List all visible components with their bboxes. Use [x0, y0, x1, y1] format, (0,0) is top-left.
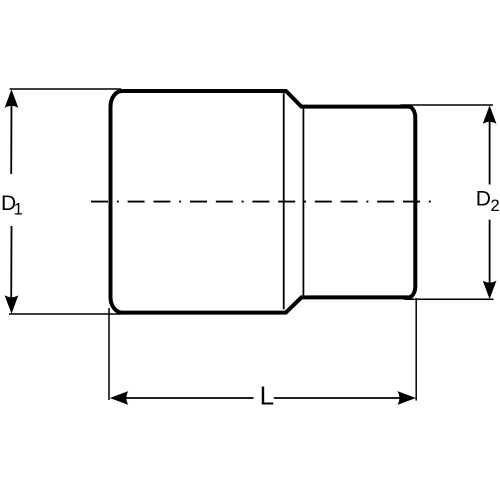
dimension line L right segment — [274, 397, 404, 399]
dimension line L left segment — [122, 397, 254, 399]
extension line top-left (D1 upper) — [10, 88, 122, 90]
svg-text:D2: D2 — [476, 187, 500, 215]
dimension line D1 upper segment — [10, 100, 12, 174]
arrowhead D2 down — [483, 281, 497, 300]
arrowhead L right — [397, 391, 416, 405]
body end face edge (thin vertical) — [283, 93, 285, 309]
extension line right vertical (L right) — [415, 298, 417, 401]
svg-text:D1: D1 — [1, 192, 23, 219]
arrowhead D2 up — [483, 105, 497, 124]
arrowhead D1 up — [5, 89, 19, 108]
centerline (dash-dot axis) — [91, 201, 432, 203]
svg-text:L: L — [260, 381, 274, 411]
dimension line D1 lower segment — [10, 226, 12, 303]
dimension line D2 upper segment — [489, 116, 491, 185]
chamfer/neck edge (thin vertical) — [302, 108, 304, 295]
arrowhead L left — [110, 391, 129, 405]
socket body outline (large rounded profile, chamfer, drive-end profile) — [111, 91, 416, 313]
extension line bottom-right (D2 lower) — [404, 298, 493, 300]
extension line bottom-left (D1 lower) — [9, 313, 121, 315]
extension line left vertical (L left) — [108, 308, 110, 400]
dimension line D2 lower segment — [489, 220, 491, 288]
extension line top-right (D2 upper) — [400, 104, 493, 106]
arrowhead D1 down — [5, 295, 19, 314]
